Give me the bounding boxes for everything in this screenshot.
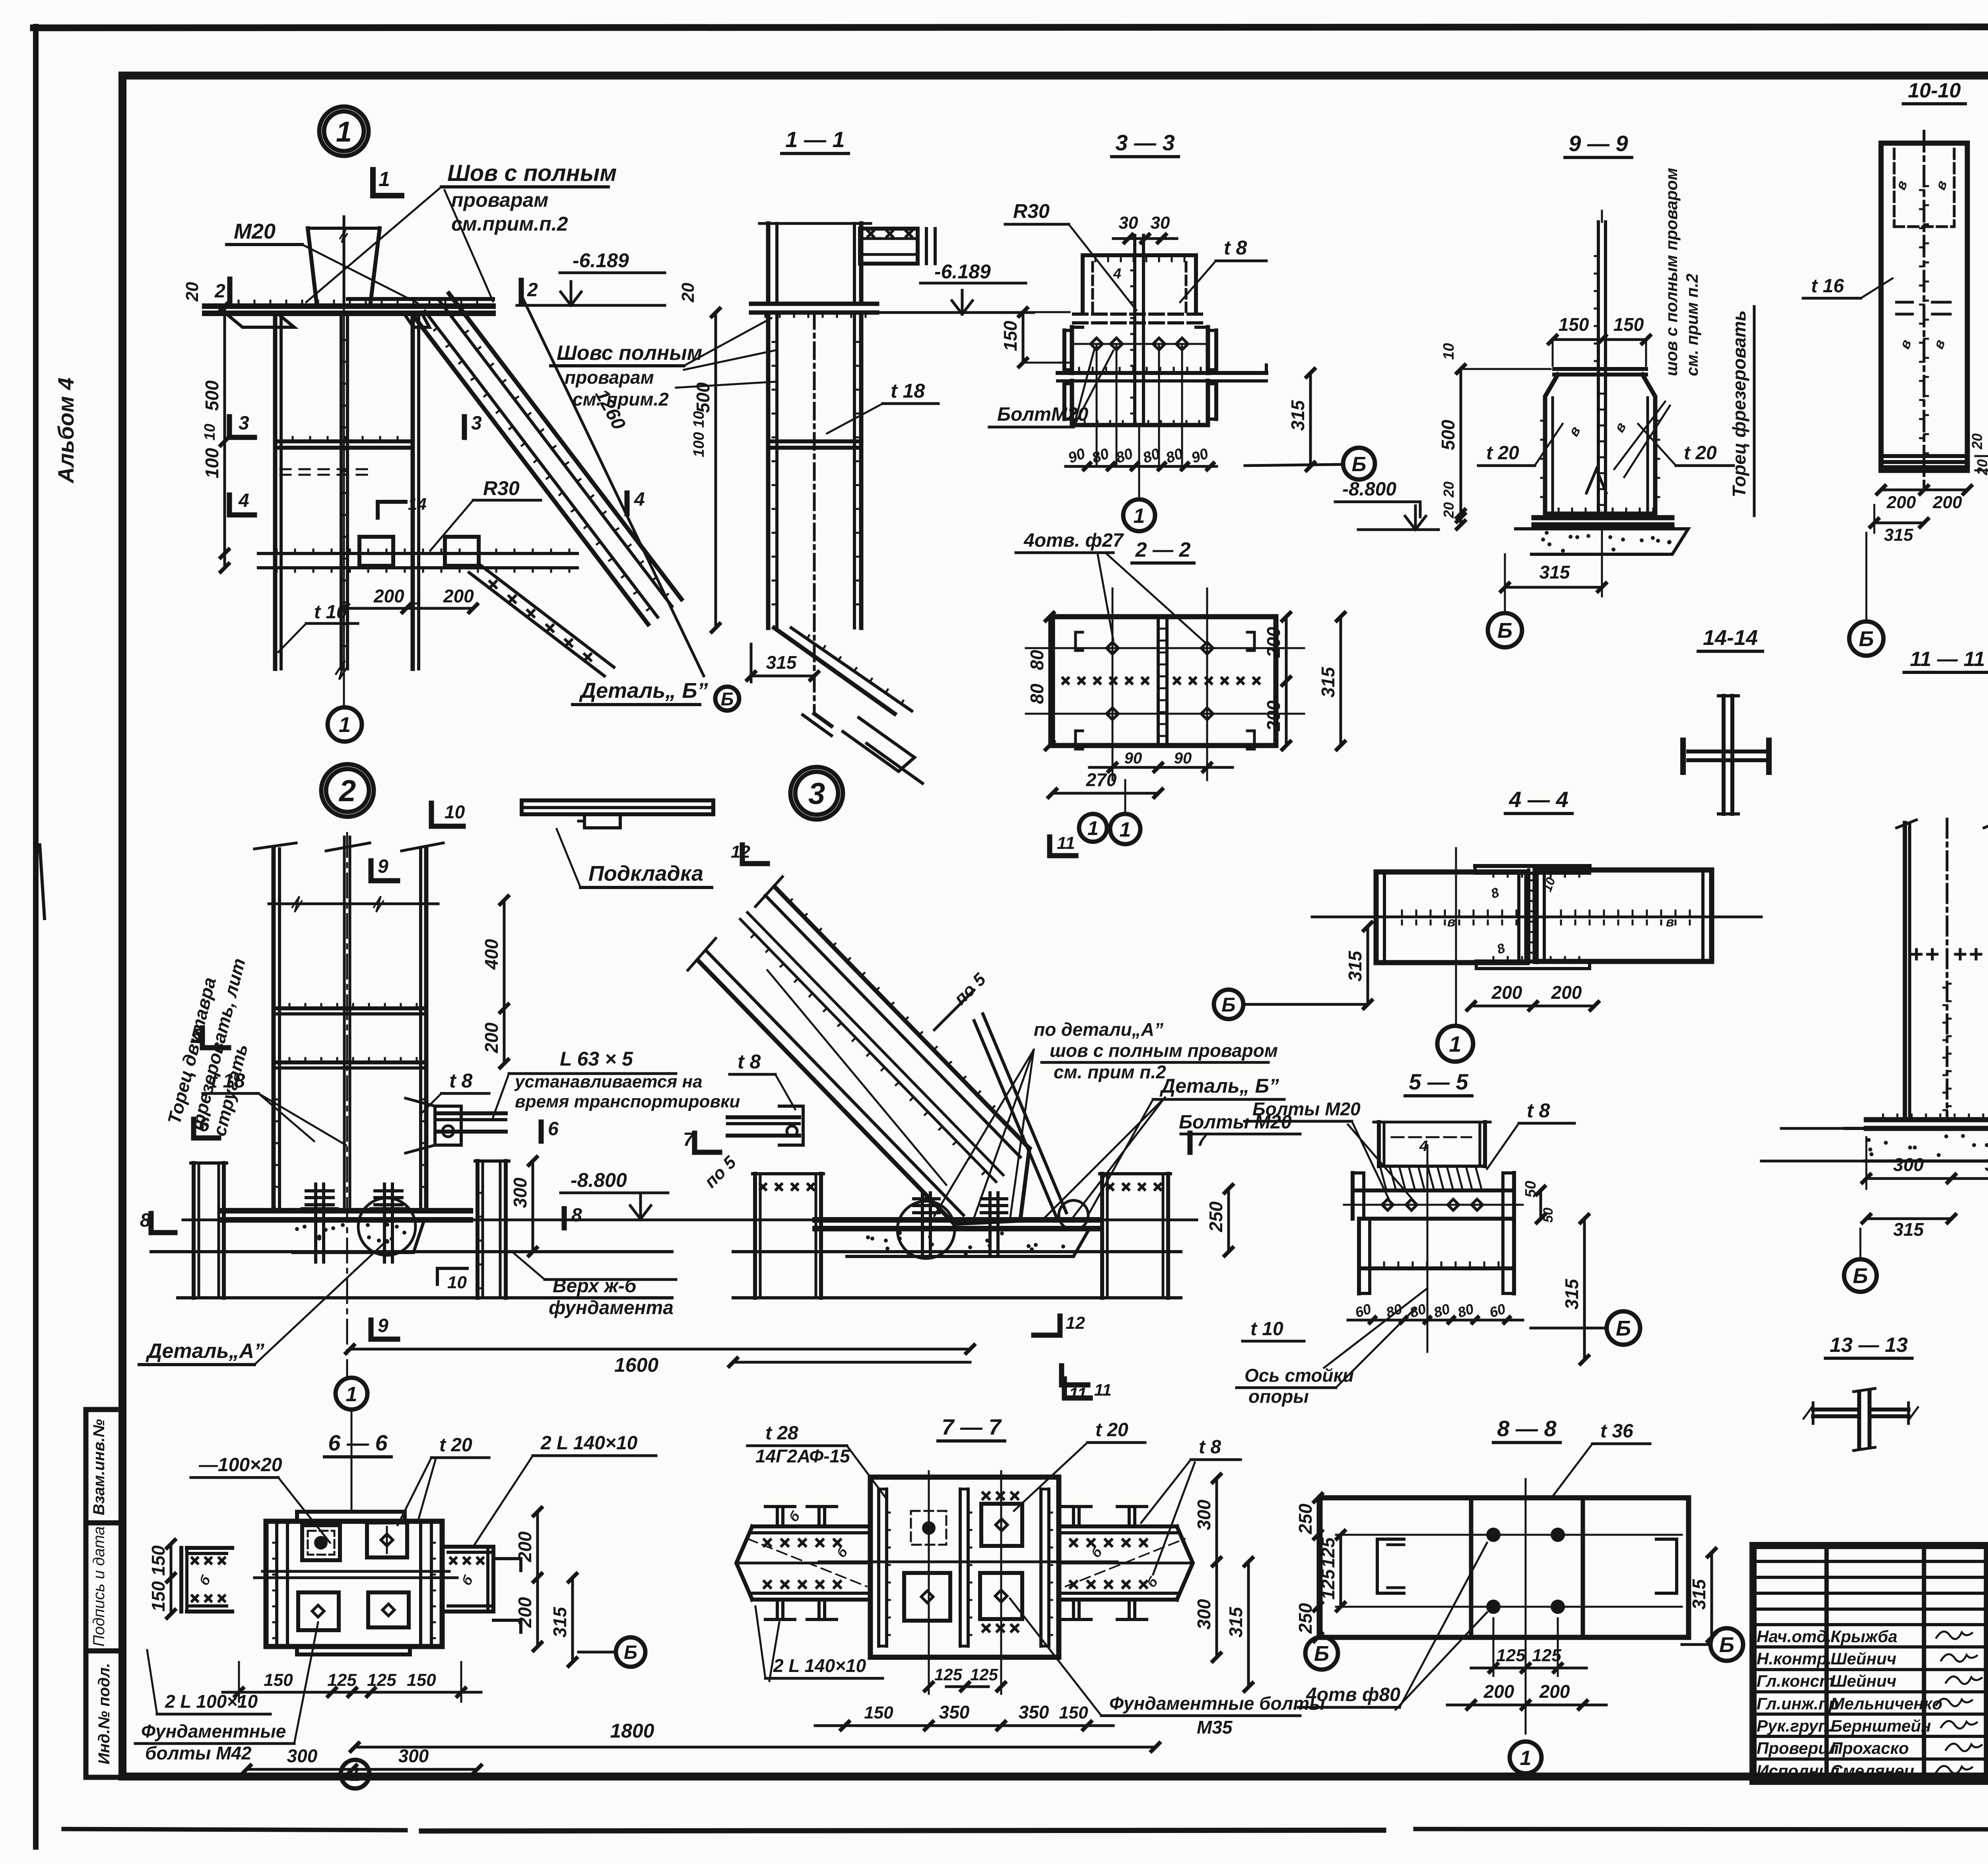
node 1 left dim column xyxy=(223,306,226,568)
node 2 centre line xyxy=(346,833,348,1364)
svg-text:125: 125 xyxy=(1318,1569,1338,1600)
svg-text:t 8: t 8 xyxy=(1199,1437,1221,1458)
node 3 flags 7 xyxy=(692,1133,697,1152)
11-11 B bubble xyxy=(1844,1259,1877,1292)
2-2 center weld seam xyxy=(1157,617,1160,746)
svg-text:М35: М35 xyxy=(1197,1717,1233,1738)
7-7 left wing channels xyxy=(776,1507,779,1526)
svg-text:Б: Б xyxy=(624,1642,637,1663)
node 3 dim 250 xyxy=(1227,1189,1230,1252)
node 1 right section flag 2 xyxy=(519,280,524,303)
5-5 bolts xyxy=(1382,1199,1393,1210)
svg-text:13 — 13: 13 — 13 xyxy=(1830,1334,1908,1357)
svg-text:Б: Б xyxy=(1616,1316,1631,1340)
6-6 inner ribs xyxy=(275,1521,278,1647)
svg-text:7: 7 xyxy=(683,1129,695,1150)
node 2 flag 6 left xyxy=(191,1119,196,1138)
node 3 brace band xyxy=(698,960,954,1224)
svg-text:250: 250 xyxy=(1295,1503,1316,1534)
svg-text:14: 14 xyxy=(408,495,427,513)
node 2 detail circle xyxy=(358,1198,415,1255)
node 2 anchor bolts xyxy=(314,1184,317,1262)
node 1 flag 14 xyxy=(378,500,406,504)
svg-text:315: 315 xyxy=(1345,950,1365,981)
node 1 section flags 4 xyxy=(227,495,232,515)
svg-text:200: 200 xyxy=(1483,1681,1514,1702)
svg-text:1800: 1800 xyxy=(610,1720,654,1742)
9-9 weld leaders xyxy=(1614,402,1665,469)
10-10 dims 200 200 xyxy=(1881,489,1967,491)
svg-text:150: 150 xyxy=(1613,314,1644,335)
svg-text:9: 9 xyxy=(378,856,388,877)
8-8 left dims xyxy=(1317,1498,1320,1637)
node 2 flag 5 xyxy=(200,1028,205,1048)
svg-text:Ось стойки: Ось стойки xyxy=(1244,1365,1354,1386)
8-8 central square xyxy=(1469,1498,1474,1637)
11-11 foundation hatch xyxy=(1845,1128,1988,1161)
svg-text:125: 125 xyxy=(327,1670,357,1690)
svg-text:Нач.отд.: Нач.отд. xyxy=(1757,1627,1831,1646)
10-10 mid dashes xyxy=(1897,301,1912,304)
svg-text:125: 125 xyxy=(1318,1537,1338,1568)
svg-text:315: 315 xyxy=(1689,1579,1709,1610)
svg-text:125: 125 xyxy=(1496,1646,1526,1665)
svg-text:6 — 6: 6 — 6 xyxy=(328,1430,388,1455)
2-2 bubble 1 xyxy=(1110,814,1140,844)
svg-text:-6.189: -6.189 xyxy=(934,260,991,283)
svg-text:3: 3 xyxy=(808,777,825,811)
svg-text:2: 2 xyxy=(338,774,356,808)
node 3 stub columns xyxy=(753,1174,757,1298)
svg-text:10: 10 xyxy=(202,424,218,441)
svg-text:проварам: проварам xyxy=(451,189,548,211)
svg-text:L 63 × 5: L 63 × 5 xyxy=(560,1048,633,1070)
11-11 ground line xyxy=(1781,1127,1988,1130)
svg-text:Торец фрезеровать: Торец фрезеровать xyxy=(1729,310,1749,497)
svg-text:М20: М20 xyxy=(234,219,276,243)
9-9 top plate xyxy=(1554,367,1646,371)
6-6 bottom bubble 1 xyxy=(341,1760,369,1788)
8-8 bolts xyxy=(1486,1528,1501,1542)
svg-text:150: 150 xyxy=(1559,314,1589,335)
svg-text:315: 315 xyxy=(1561,1278,1582,1309)
8-8 right C mark xyxy=(1656,1539,1677,1593)
node 3 base plate xyxy=(815,1217,1101,1223)
svg-text:см. прим.2: см. прим.2 xyxy=(573,389,669,410)
11-11 base plate xyxy=(1866,1117,1988,1122)
6-6 top bubble 1 xyxy=(336,1378,367,1410)
svg-text:9 — 9: 9 — 9 xyxy=(1569,131,1628,156)
7-7 bolt square TR xyxy=(981,1504,1022,1546)
svg-text:t 18: t 18 xyxy=(891,380,925,402)
node 2 dim 300 xyxy=(532,1161,534,1252)
node 1 stiffener row 2 xyxy=(258,552,577,555)
svg-text:1600: 1600 xyxy=(614,1354,658,1376)
svg-text:30: 30 xyxy=(1151,213,1170,233)
1-1 stiffener xyxy=(768,439,861,443)
7-7 vertical ribs xyxy=(877,1489,880,1646)
svg-text:3 — 3: 3 — 3 xyxy=(1115,130,1175,155)
node 3 B bubble right xyxy=(1214,990,1243,1019)
node 1 column web lines xyxy=(340,313,343,669)
svg-text:см. прим п.2: см. прим п.2 xyxy=(1054,1062,1166,1082)
svg-text:200: 200 xyxy=(514,1597,535,1628)
8-8 centerlines xyxy=(1336,1534,1682,1536)
svg-text:2: 2 xyxy=(527,280,538,301)
node 1 stiffener row 1 xyxy=(275,439,413,443)
10-10 body xyxy=(1881,143,1967,470)
svg-text:500: 500 xyxy=(1438,419,1458,450)
svg-text:200: 200 xyxy=(1932,493,1962,512)
13-13 sketch xyxy=(1857,1392,1861,1447)
9-9 dim 315 xyxy=(1505,586,1602,589)
11-11 top break xyxy=(1897,820,1916,828)
svg-text:5: 5 xyxy=(191,1025,202,1046)
svg-text:1: 1 xyxy=(1449,1031,1461,1056)
svg-text:300: 300 xyxy=(1194,1499,1214,1530)
left margin stamp boxes xyxy=(86,1410,122,1777)
svg-text:150: 150 xyxy=(264,1670,293,1690)
10-10 dashed inner xyxy=(1893,149,1896,227)
10-10 bottom lines xyxy=(1881,454,1967,458)
2-2 dim 315 xyxy=(1340,617,1342,746)
svg-text:270: 270 xyxy=(1086,769,1117,790)
svg-text:t 10: t 10 xyxy=(314,602,347,623)
svg-text:4 — 4: 4 — 4 xyxy=(1508,787,1568,812)
node 2 foundation lines xyxy=(151,1250,672,1253)
svg-text:-8.800: -8.800 xyxy=(571,1169,627,1191)
svg-text:1: 1 xyxy=(1120,818,1131,841)
node 3 leader fan xyxy=(934,1050,1034,1216)
outer border top xyxy=(33,27,1988,28)
svg-text:150: 150 xyxy=(1059,1703,1088,1722)
svg-text:200: 200 xyxy=(1539,1681,1570,1702)
svg-text:Б: Б xyxy=(1352,453,1367,476)
7-7 bolt square BR xyxy=(980,1573,1022,1619)
svg-text:Гл.инж.пр: Гл.инж.пр xyxy=(1757,1694,1839,1713)
4-4 centerline xyxy=(1455,848,1457,1026)
svg-text:150: 150 xyxy=(1000,320,1021,351)
svg-text:t 10: t 10 xyxy=(1250,1318,1283,1340)
svg-text:315: 315 xyxy=(1540,562,1571,582)
svg-text:опоры: опоры xyxy=(1248,1386,1309,1407)
svg-text:11 — 11: 11 — 11 xyxy=(1910,648,1985,671)
2-2 centerlines xyxy=(1026,647,1304,649)
node 2 splice line 2 xyxy=(274,1060,426,1064)
9-9 top dims 150 150 xyxy=(1553,338,1646,341)
svg-text:1: 1 xyxy=(350,1764,361,1785)
svg-text:t 20: t 20 xyxy=(1095,1419,1128,1441)
2-2 right dims 200 200 xyxy=(1285,617,1288,746)
1-1 dim 315 xyxy=(751,675,814,678)
node 2 section flag 9 bottom xyxy=(369,1320,374,1339)
svg-text:Б: Б xyxy=(1853,1264,1868,1288)
svg-text:болты М42: болты М42 xyxy=(145,1743,252,1763)
svg-text:Б: Б xyxy=(1859,627,1874,651)
node 1 column top cup xyxy=(308,228,316,303)
svg-text:3: 3 xyxy=(239,413,249,434)
personnel table top rows xyxy=(1753,1560,1988,1563)
svg-text:3: 3 xyxy=(471,413,482,434)
svg-text:14-14: 14-14 xyxy=(1703,626,1758,650)
svg-text:Прохаско: Прохаско xyxy=(1831,1739,1909,1757)
node 3 brace break top xyxy=(688,938,716,970)
svg-text:150: 150 xyxy=(148,1545,169,1576)
svg-text:t 18: t 18 xyxy=(211,1070,245,1092)
4-4 bottom plate xyxy=(1476,959,1590,963)
node 1 bottom break xyxy=(336,660,348,680)
svg-text:300: 300 xyxy=(510,1177,530,1208)
svg-text:2: 2 xyxy=(214,281,225,302)
personnel rows and names xyxy=(1753,1645,1988,1648)
svg-text:11: 11 xyxy=(1069,1384,1087,1404)
2-2 bottom dims xyxy=(1089,766,1233,769)
svg-text:1: 1 xyxy=(336,116,352,148)
svg-text:20: 20 xyxy=(1969,433,1985,450)
node 3 flag 12 bottom xyxy=(1058,1316,1063,1335)
svg-text:4: 4 xyxy=(1113,265,1121,282)
svg-text:Фундаментные болты: Фундаментные болты xyxy=(1109,1693,1325,1714)
svg-text:350: 350 xyxy=(939,1702,970,1722)
node 1 section flags 3 xyxy=(227,417,232,437)
7-7 left wing beam xyxy=(752,1524,870,1528)
3-3 dashed band xyxy=(1074,313,1207,316)
14-14 sketch xyxy=(1722,696,1726,814)
svg-text:12: 12 xyxy=(1066,1313,1085,1333)
9-9 bottom B bubble xyxy=(1488,613,1522,647)
svg-text:6: 6 xyxy=(199,1115,210,1136)
svg-text:200: 200 xyxy=(373,586,404,606)
svg-text:10: 10 xyxy=(445,802,465,822)
node 2 right stub column xyxy=(476,1161,480,1298)
3-3 dim 150 xyxy=(1022,312,1025,363)
svg-text:Проверил: Проверил xyxy=(1757,1739,1839,1757)
signature squiggles xyxy=(1936,1631,1972,1639)
svg-text:125: 125 xyxy=(934,1665,963,1684)
svg-text:время транспортировки: время транспортировки xyxy=(515,1092,740,1111)
svg-text:20: 20 xyxy=(182,282,202,302)
4-4 mid line xyxy=(1312,916,1761,918)
9-9 base xyxy=(1545,512,1655,516)
left margin small marks xyxy=(40,845,45,918)
svg-text:300: 300 xyxy=(287,1746,318,1766)
svg-text:50: 50 xyxy=(1541,1208,1556,1223)
7-7 dim 315 xyxy=(1247,1562,1250,1687)
svg-text:10-10: 10-10 xyxy=(1908,79,1961,102)
svg-text:Болты М20: Болты М20 xyxy=(1252,1099,1361,1119)
2-2 corner channel marks xyxy=(1076,632,1083,650)
svg-text:Гл.конст: Гл.конст xyxy=(1757,1672,1834,1690)
svg-text:Б: Б xyxy=(1221,994,1235,1016)
node 2 section flag 9 top xyxy=(369,861,374,881)
node 2 flag 8 left xyxy=(149,1214,154,1233)
1-1 lower brace stubs xyxy=(843,718,914,771)
node 2 left stub column xyxy=(192,1163,196,1298)
svg-text:см. прим п.2: см. прим п.2 xyxy=(1683,274,1701,376)
svg-text:20: 20 xyxy=(1441,502,1457,518)
podkladka bar xyxy=(522,798,713,802)
svg-text:Взам.инв.№: Взам.инв.№ xyxy=(90,1419,108,1515)
svg-text:1: 1 xyxy=(346,1383,357,1406)
8-8 bottom dims 125 125 xyxy=(1471,1667,1586,1670)
5-5 leader from os stoyki xyxy=(1324,1288,1427,1368)
node 2 base plate xyxy=(222,1208,470,1214)
9-9 left dims xyxy=(1460,369,1462,525)
svg-text:Б: Б xyxy=(1719,1633,1734,1657)
svg-text:8: 8 xyxy=(571,1205,582,1226)
svg-text:8: 8 xyxy=(140,1210,151,1231)
10-10 B bubble xyxy=(1849,621,1883,656)
7-7 right dims 300 300 xyxy=(1215,1478,1218,1657)
1-1 column body xyxy=(766,313,771,628)
svg-text:фундамента: фундамента xyxy=(549,1297,674,1318)
svg-text:5 — 5: 5 — 5 xyxy=(1409,1069,1468,1094)
svg-text:2 L 140×10: 2 L 140×10 xyxy=(773,1655,866,1676)
svg-text:150: 150 xyxy=(864,1703,893,1722)
6-6 left channel stub xyxy=(179,1548,183,1612)
8-8 dim 315 xyxy=(1710,1553,1713,1637)
node 3 brace mid member xyxy=(740,919,996,1182)
3-3 bolts row xyxy=(1091,338,1103,350)
svg-text:50: 50 xyxy=(1522,1181,1539,1198)
svg-text:11: 11 xyxy=(1094,1381,1112,1399)
3-3 bottom dims xyxy=(1066,465,1217,468)
svg-text:Фундаментные: Фундаментные xyxy=(141,1721,286,1742)
svg-text:t 20: t 20 xyxy=(439,1435,472,1456)
svg-text:Шейнич: Шейнич xyxy=(1831,1649,1897,1668)
7-7 central plate xyxy=(870,1477,1059,1657)
node 3 bolts xyxy=(921,1193,924,1256)
2-2 bolt symbols xyxy=(1107,642,1118,654)
node 3 brace end cut xyxy=(1020,1148,1029,1221)
svg-text:R30: R30 xyxy=(1013,200,1050,222)
node 3 dim 315 right xyxy=(1367,926,1369,1004)
3-3 central rod xyxy=(1133,235,1136,425)
6-6 bottom plate xyxy=(297,1647,410,1654)
svg-text:250: 250 xyxy=(1295,1603,1316,1634)
svg-text:30: 30 xyxy=(1119,213,1138,233)
svg-text:t 8: t 8 xyxy=(449,1070,473,1092)
2-2 weld xmarks xyxy=(1063,678,1068,683)
svg-text:Б: Б xyxy=(1497,619,1512,643)
6-6 right channel stub xyxy=(486,1547,489,1612)
5-5 top stub xyxy=(1377,1122,1381,1166)
svg-text:400: 400 xyxy=(481,939,502,970)
6-6 bolt square BL xyxy=(298,1592,339,1630)
svg-text:R30: R30 xyxy=(483,477,520,499)
node 1 brace diag dim 1260 xyxy=(521,294,704,676)
svg-text:315: 315 xyxy=(1287,400,1308,431)
node 2 right dim 400 200 xyxy=(503,900,506,1064)
svg-text:t 36: t 36 xyxy=(1600,1421,1633,1442)
6-6 right dims 200 200 xyxy=(536,1512,539,1647)
3-3 dim 315 right xyxy=(1309,373,1312,466)
node 3 bubble 1 top xyxy=(1079,814,1107,842)
node 1 weld dash row xyxy=(280,469,367,475)
7-7 center lines xyxy=(819,1561,1117,1563)
8-8 B bubble left xyxy=(1305,1637,1338,1670)
7-7 dims 125 125 xyxy=(946,1685,988,1688)
svg-text:Крыжба: Крыжба xyxy=(1831,1627,1897,1646)
node 1 bottom bubble xyxy=(328,707,362,742)
svg-text:150: 150 xyxy=(148,1581,169,1612)
node 3 second diagonal xyxy=(974,1021,1058,1220)
svg-text:шов с полным проваром: шов с полным проваром xyxy=(1662,168,1681,376)
svg-text:Б: Б xyxy=(1314,1642,1329,1666)
svg-text:1: 1 xyxy=(1087,817,1099,839)
svg-text:Н.контр.: Н.контр. xyxy=(1757,1649,1832,1668)
node 2 upper splice thin line xyxy=(269,903,438,905)
svg-text:Шейнич: Шейнич xyxy=(1831,1672,1897,1690)
3-3 upper body xyxy=(1070,327,1074,373)
6-6 outer block xyxy=(266,1521,442,1647)
svg-text:—100×20: —100×20 xyxy=(198,1454,282,1476)
svg-text:4: 4 xyxy=(634,489,645,510)
svg-text:200: 200 xyxy=(443,586,474,606)
node 1 base plate left taper xyxy=(227,314,294,327)
6-6 bolt square TL xyxy=(302,1525,340,1560)
svg-text:Исполнил: Исполнил xyxy=(1757,1761,1839,1780)
svg-text:100 10: 100 10 xyxy=(691,411,707,457)
dim 1800 bottom xyxy=(355,1746,1155,1749)
5-5 dim 315 xyxy=(1583,1219,1586,1360)
svg-text:1: 1 xyxy=(1134,505,1145,528)
node 2 flag 10 top right xyxy=(429,803,434,826)
node 1 gusset plates xyxy=(359,537,393,566)
node 2 flag 6 right xyxy=(539,1122,544,1141)
svg-text:90: 90 xyxy=(1124,749,1142,767)
1-1 column head xyxy=(751,302,877,306)
outer border bottom rough line xyxy=(64,1829,406,1830)
svg-text:500: 500 xyxy=(202,380,222,411)
7-7 bolt square TL dashed xyxy=(911,1511,946,1545)
svg-text:Деталь„А”: Деталь„А” xyxy=(146,1340,264,1363)
svg-text:t 20: t 20 xyxy=(1684,443,1717,464)
svg-text:t 8: t 8 xyxy=(1527,1099,1550,1122)
svg-text:4отв. ф27: 4отв. ф27 xyxy=(1023,530,1124,551)
svg-text:Ц: Ц xyxy=(410,591,421,608)
svg-text:Мельниченко: Мельниченко xyxy=(1831,1694,1942,1713)
svg-text:см.прим.п.2: см.прим.п.2 xyxy=(451,213,568,235)
svg-text:315: 315 xyxy=(1884,525,1913,545)
node 1 bubble xyxy=(319,107,369,156)
svg-text:20: 20 xyxy=(1441,482,1457,498)
svg-text:315: 315 xyxy=(549,1606,570,1637)
outer border left xyxy=(33,27,39,1847)
6-6 B bubble xyxy=(616,1637,645,1667)
4-4 dims 200 200 xyxy=(1471,1005,1594,1008)
5-5 bottom dims xyxy=(1348,1319,1523,1322)
1-1 right bracket beam xyxy=(860,229,918,264)
svg-text:1 — 1: 1 — 1 xyxy=(785,127,845,152)
svg-text:200: 200 xyxy=(1551,982,1582,1003)
svg-text:t 16: t 16 xyxy=(1811,276,1844,297)
10-10 dim 315 xyxy=(1874,522,1924,524)
title block outer xyxy=(1753,1546,1988,1781)
13-13 break marks xyxy=(1804,1406,1813,1419)
5-5 lower channel xyxy=(1359,1217,1514,1221)
svg-text:12: 12 xyxy=(731,842,750,862)
svg-text:Бернштейн: Бернштейн xyxy=(1831,1716,1931,1735)
node 3 bottom dim line xyxy=(733,1361,970,1364)
9-9 center rod xyxy=(1597,222,1600,514)
6-6 dim 315 right xyxy=(571,1578,574,1662)
2-2 plate outline xyxy=(1052,617,1276,746)
2-2 left dim 80 80 xyxy=(1048,617,1051,746)
3-3 lower body xyxy=(1070,381,1074,425)
5-5 vertical centerline xyxy=(1427,1145,1429,1352)
node 3 left bracket xyxy=(728,1115,799,1119)
